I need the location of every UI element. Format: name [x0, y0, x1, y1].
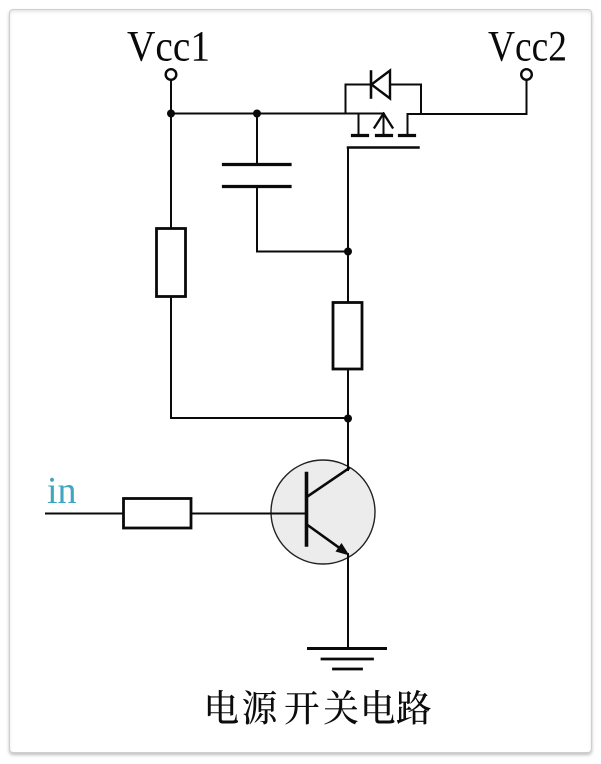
wire Vcc2 stub down: [526, 80, 528, 114]
capacitor C1 plate top: [224, 163, 291, 166]
mosfet M1 body stub with arrow: [383, 114, 385, 135]
transistor Q1 emitter arrowhead: [336, 543, 350, 556]
wire input left: [46, 513, 124, 515]
wire R1 bottom down and across to node D: [171, 297, 348, 419]
wire gate vertical: [347, 148, 349, 252]
Vcc1 terminal circle: [166, 69, 177, 80]
svg-text:in: in: [47, 470, 77, 512]
mosfet M1 channel bar right: [400, 134, 415, 137]
Vcc2 terminal circle: [521, 69, 532, 80]
resistor R2: [333, 303, 362, 370]
mosfet M1 gate bar: [348, 146, 419, 149]
body diode D1 triangle: [372, 71, 391, 99]
junction node C: [344, 248, 352, 256]
resistor R3: [124, 499, 192, 529]
ground bar 1: [309, 647, 386, 650]
mosfet M1 source stub left: [358, 114, 360, 135]
body diode D1 cathode bar: [370, 72, 373, 98]
wire cap top: [256, 114, 258, 166]
resistor R1: [157, 229, 186, 297]
title char 电: [208, 690, 238, 724]
transistor Q1 base bar: [305, 474, 309, 546]
title char 路: [397, 690, 431, 725]
junction node A: [167, 110, 175, 118]
mosfet M1 drain stub right: [407, 114, 409, 135]
title char 电: [364, 690, 394, 724]
wire node C down to R2: [347, 252, 349, 304]
body diode D1 right leg: [390, 85, 421, 115]
junction node D: [344, 415, 352, 423]
wire Vcc1 stub down: [170, 80, 172, 114]
transistor Q1 body circle: [271, 460, 375, 564]
transistor Q1 emitter diagonal: [308, 525, 342, 549]
wire R2 bottom to node D: [347, 369, 349, 419]
wire left branch down to R1: [170, 114, 172, 230]
ground bar 2: [322, 658, 373, 661]
wire node D down to collector: [347, 419, 349, 471]
title char 源: [243, 690, 276, 724]
junction node B: [253, 110, 261, 118]
svg-text:Vcc1: Vcc1: [127, 24, 210, 71]
wire cap bottom to node C: [257, 187, 348, 252]
wire drain to Vcc2: [408, 113, 527, 115]
wire top rail: [171, 113, 384, 115]
capacitor C1 plate bottom: [224, 185, 291, 188]
wire R3 to base: [191, 513, 307, 515]
wire emitter down to ground: [347, 554, 349, 649]
transistor Q1 collector diagonal: [308, 469, 349, 497]
body diode D1 left leg: [346, 85, 372, 114]
mosfet M1 channel bar middle: [377, 134, 392, 137]
svg-text:Vcc2: Vcc2: [488, 24, 567, 71]
title char 开: [285, 691, 318, 725]
ground bar 3: [334, 668, 362, 671]
mosfet M1 channel bar left: [353, 134, 368, 137]
title char 关: [324, 690, 357, 725]
